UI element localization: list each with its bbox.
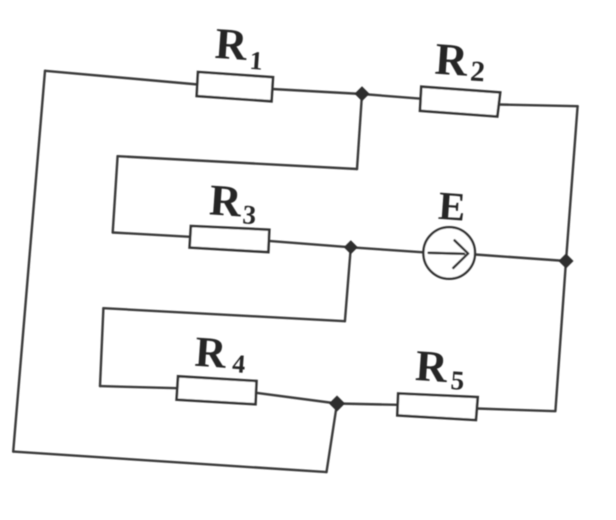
wire R5 left to node D <box>337 404 398 405</box>
wire outer left edge <box>13 71 45 452</box>
resistor R2 <box>420 87 500 117</box>
svg-text:E: E <box>437 183 467 230</box>
wire right edge down to node C <box>566 106 578 261</box>
wire riser up to node B <box>345 247 351 321</box>
svg-text:1: 1 <box>249 46 264 76</box>
wire left loop vertical <box>100 308 103 386</box>
node D junction dot <box>329 396 345 412</box>
wire node C down and left to R5 <box>477 261 566 411</box>
node A junction dot <box>355 86 370 101</box>
wire node A to R2 <box>362 94 421 99</box>
wire top-left to R1 <box>45 71 198 85</box>
wire R3 loop top horizontal <box>118 156 357 169</box>
wire R4 right to node D <box>256 393 337 404</box>
svg-text:R: R <box>214 19 250 70</box>
svg-text:4: 4 <box>231 349 246 379</box>
wire left loop corner to R4 <box>100 386 177 388</box>
wire to R3 left <box>113 233 191 237</box>
wire source E to node C <box>475 255 566 262</box>
label R5 <box>414 341 467 396</box>
wire node B to source E <box>351 247 424 252</box>
wire R2 to top-right corner <box>499 105 578 107</box>
svg-text:R: R <box>433 34 469 86</box>
resistor R5 <box>397 394 477 421</box>
resistor R1 <box>197 72 273 101</box>
svg-text:R: R <box>208 175 244 226</box>
source E arrow <box>429 240 469 268</box>
svg-text:3: 3 <box>242 199 258 230</box>
node C junction dot <box>559 254 574 269</box>
wire bottom horizontal <box>13 452 326 473</box>
svg-text:5: 5 <box>450 365 466 396</box>
wire node A down <box>357 94 362 169</box>
resistor R3 <box>190 226 270 252</box>
source E circle <box>423 227 475 279</box>
resistor R4 <box>177 376 257 404</box>
wire R3 right to node B <box>269 241 351 247</box>
svg-text:R: R <box>414 341 450 392</box>
wire R3 loop left vertical <box>113 156 118 232</box>
node B junction dot <box>344 240 358 254</box>
label R2 <box>433 34 487 89</box>
label E <box>437 183 467 230</box>
label R4 <box>193 329 247 379</box>
wire R1 to node A <box>272 89 362 94</box>
label R1 <box>213 19 265 76</box>
svg-text:2: 2 <box>469 55 486 88</box>
wire left loop horizontal to riser <box>103 308 345 321</box>
label R3 <box>208 175 259 230</box>
svg-text:R: R <box>193 329 228 378</box>
wire node D down to bottom <box>327 404 338 473</box>
